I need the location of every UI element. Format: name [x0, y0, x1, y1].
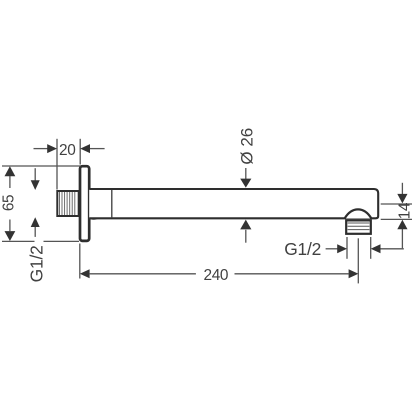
dimension 65: extension line bottom (two segments): [2, 240, 79, 242]
dimension 20: right arrow and tail: [80, 144, 104, 153]
svg-text:65: 65: [1, 195, 18, 211]
dimension G1/2 wall thread: top arrow with tail: [31, 168, 40, 190]
outlet thread G1/2 (hatched): [346, 220, 371, 233]
dimension 240: right arrow: [349, 269, 359, 278]
arm underside step near flange: [91, 218, 98, 221]
dimension 14: top arrow with tail: [397, 183, 407, 204]
svg-text:14: 14: [397, 202, 412, 219]
dimension D26: top arrow with tail: [240, 168, 251, 188]
shower arm body outline: [89, 189, 378, 218]
dimension G1/2 outlet: right arrow with tail: [371, 244, 404, 253]
svg-text:Ø 26: Ø 26: [238, 128, 257, 165]
dimension 65: extension line top: [2, 165, 81, 167]
outlet dome cap at arm end: [345, 209, 372, 218]
svg-text:G1/2: G1/2: [284, 239, 321, 259]
dimension G1/2 outlet: extension line right: [370, 237, 372, 259]
dimension G1/2 wall thread: bottom arrow with tail: [31, 217, 40, 237]
dimension 65: top arrow: [5, 166, 16, 176]
dimension 14: bottom arrow with tail: [397, 220, 407, 249]
threaded wall nipple G1/2 (hatched): [57, 191, 78, 216]
dimension 20: extension line left: [56, 139, 58, 190]
svg-text:20: 20: [59, 142, 75, 159]
svg-text:240: 240: [204, 267, 228, 284]
dimension 240: dimension line segments: [89, 273, 349, 275]
dimension 65: dimension line segments: [9, 176, 11, 231]
dimension G1/2 outlet: extension line left: [346, 237, 348, 259]
dimension 20: extension line right: [79, 139, 81, 165]
wall flange escutcheon (side view): [80, 166, 89, 241]
svg-text:G1/2: G1/2: [27, 245, 47, 282]
arm joint line near flange: [111, 190, 113, 218]
dimension 240: left arrow: [80, 269, 90, 278]
dimension 14: extension line bottom: [381, 218, 412, 220]
dimension G1/2 outlet: left arrow with tail: [326, 244, 347, 253]
dimension 240: extension line right (outlet centre): [357, 238, 359, 283]
dimension D26: bottom arrow with tail: [240, 220, 251, 243]
dimension 14: extension line top: [381, 203, 412, 205]
dimension 20: left arrow and tail: [34, 144, 58, 153]
dimension 240: extension line left (below flange): [79, 244, 81, 279]
dimension 65: bottom arrow: [5, 231, 16, 241]
